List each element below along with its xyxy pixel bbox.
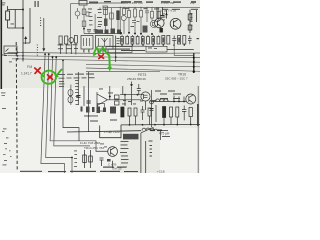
wire [166, 10, 168, 19]
capacitor C15 [150, 109, 154, 111]
text specks right cluster [163, 13, 166, 16]
resistor R13 [188, 14, 192, 20]
resistor R27 [59, 36, 62, 44]
coil L3 [156, 99, 169, 102]
node [178, 101, 180, 103]
label box [79, 1, 87, 6]
box component [115, 95, 120, 99]
resistor R14 [188, 25, 192, 30]
wire [108, 99, 142, 101]
wire [99, 7, 101, 10]
node [52, 56, 54, 58]
resistor R30 [121, 107, 124, 117]
arrow input [25, 38, 27, 45]
wire [22, 0, 24, 62]
wire [109, 86, 111, 100]
capacitor C3 [94, 30, 98, 35]
text specks right of U2 [117, 37, 120, 40]
wire [151, 7, 153, 21]
IC box U2 [96, 36, 114, 50]
text specks mid right y47-52 [148, 47, 152, 50]
node row [120, 32, 122, 34]
resistor R34 [163, 107, 166, 118]
text specks mid top cluster [98, 8, 102, 11]
knot cluster right of TR14 top [97, 84, 141, 111]
resistor R21 [152, 37, 155, 45]
annotation ellipse [41, 70, 57, 85]
text specks [108, 92, 113, 95]
component band y36-45 x120-190 [121, 35, 192, 46]
text specks [125, 7, 129, 10]
wire [117, 10, 119, 34]
bus wire L3 [12, 59, 200, 62]
resistor R10 [140, 11, 143, 18]
bus wire L6 [86, 70, 160, 72]
node [44, 53, 46, 55]
wire [8, 6, 24, 28]
resistor R31 [128, 108, 131, 116]
resistor R11 [151, 12, 154, 19]
resistor R12 [157, 12, 160, 19]
wire [122, 86, 124, 95]
dark blob [160, 28, 163, 33]
wire [115, 36, 117, 63]
wire [196, 10, 198, 22]
resistor R28 [65, 36, 68, 44]
resistor R35 [170, 107, 173, 117]
wire [158, 7, 160, 20]
illegible text specks [1, 1, 198, 172]
text specks x40 y18 [40, 18, 41, 19]
wire [189, 10, 191, 34]
resistor R37 [189, 108, 192, 117]
node [137, 94, 139, 96]
capacitor C14 [137, 84, 141, 94]
resistor R6b [86, 12, 89, 16]
lighter lower-right paper region [160, 128, 200, 173]
resistor R7 [123, 9, 126, 15]
wire [100, 124, 200, 137]
dark blob cluster [95, 30, 103, 34]
label box T2 [97, 45, 146, 47]
resistor R39 [89, 156, 93, 162]
capacitor C13 [132, 21, 136, 23]
node row [121, 44, 123, 46]
text specks right of TR14 circle col [121, 140, 129, 143]
resistor R17 [131, 37, 134, 45]
switch box S1 [4, 46, 17, 54]
capacitor C7 [141, 106, 145, 120]
text specks under U1 pins [83, 51, 84, 52]
capacitor C10 [76, 96, 80, 98]
wire [23, 8, 30, 43]
wire [70, 4, 72, 44]
resistor R9 [134, 9, 137, 17]
wire base rail [120, 94, 144, 96]
text specks near 84 [81, 107, 83, 112]
node [193, 57, 195, 59]
text specks top row dark [121, 1, 131, 3]
transistor FET3 [141, 92, 150, 101]
node [193, 61, 195, 63]
text specks [155, 91, 161, 92]
text specks top mid [89, 2, 98, 3]
wire funnel [97, 94, 108, 106]
resistor R19 [141, 37, 144, 45]
svg-text:25K49 35K46: 25K49 35K46 [127, 77, 146, 81]
wire [77, 72, 79, 105]
resistor R3 [82, 21, 86, 27]
resistor R2 [82, 9, 86, 15]
resistor R8 [128, 11, 131, 18]
node row [129, 124, 131, 126]
wire top rail [71, 2, 124, 5]
text specks mid y74 [58, 73, 65, 76]
bus wire L4 [86, 64, 200, 67]
resistor R20 [147, 37, 150, 45]
resistor R1 [6, 11, 10, 20]
wire [174, 96, 184, 102]
wire [94, 14, 96, 33]
wire stub right [174, 45, 194, 56]
wire [130, 116, 191, 125]
transistor TR10 [170, 18, 181, 29]
wire [140, 7, 142, 34]
svg-text:+C1B: +C1B [157, 170, 165, 173]
wire [65, 44, 67, 54]
annotation tick [42, 75, 45, 77]
lower component band x120-200 y106-122 [121, 86, 199, 173]
wire [156, 7, 158, 18]
wire [83, 86, 85, 106]
annotation red X in circle [48, 75, 53, 80]
svg-text:TR14 25C 783: TR14 25C 783 [84, 146, 104, 150]
wire [124, 95, 126, 106]
resistor R16 [126, 37, 129, 45]
node [124, 94, 126, 96]
wire with coil 475uH [67, 131, 141, 132]
text specks lower mid [104, 146, 107, 149]
wire [60, 44, 62, 54]
resistor R25 [178, 36, 181, 45]
lighter lower-left paper region [0, 88, 120, 173]
resistor R33 [148, 108, 151, 116]
resistor R5 dark [104, 19, 108, 27]
capacitor C8 [182, 106, 186, 121]
label box outline [98, 104, 105, 112]
TR16 block [150, 90, 196, 131]
text specks pins col right of staircase [74, 150, 77, 153]
TR14 block [83, 147, 118, 168]
wire [119, 7, 121, 35]
scattered scan text specks [2, 1, 199, 168]
wire bottom rail [84, 33, 122, 35]
transistor TR9 [155, 18, 165, 28]
annotation arrow to circle [57, 70, 62, 76]
svg-text:1 Cap +100: 1 Cap +100 [104, 130, 120, 134]
arrow mark [165, 13, 168, 16]
label box [123, 134, 139, 140]
transistor Q3 [69, 38, 74, 43]
text specks TR16 rows [160, 94, 167, 95]
wire [83, 5, 85, 34]
arrow down D1 [43, 18, 45, 48]
wire [90, 150, 92, 168]
capacitor C16 [161, 16, 165, 18]
node [193, 66, 195, 68]
resistor R32 [134, 108, 137, 116]
capacitor C5 [172, 36, 176, 45]
capacitor C11 [87, 101, 91, 103]
long mid horizontal [67, 124, 200, 173]
resistor R22 [157, 37, 160, 45]
node [183, 101, 185, 103]
annotation green circle [41, 70, 62, 85]
wire [131, 87, 133, 105]
wire vertical A [41, 54, 65, 173]
text specks near switch [37, 45, 38, 46]
wire vertical C [50, 57, 96, 150]
text specks left column [1, 92, 6, 95]
wire [167, 48, 194, 50]
pin stubs [84, 49, 108, 54]
text specks between bus left [9, 61, 12, 64]
resistor R18 [136, 37, 139, 45]
wire [110, 8, 112, 34]
text specks BEC column [149, 141, 153, 142]
text specks in label box [108, 49, 130, 50]
diode D2 [150, 100, 154, 104]
resistor R36 [176, 107, 179, 117]
node [55, 56, 57, 58]
label box T3 [146, 46, 167, 52]
right top transistors [155, 7, 197, 33]
wire [145, 141, 147, 173]
wire [96, 92, 98, 107]
capacitor C6 [188, 36, 192, 45]
wire stubs band top [122, 35, 158, 37]
wire [75, 43, 77, 54]
text specks y50 mid [121, 50, 145, 51]
coil core [70, 85, 72, 106]
capacitor C1 [104, 10, 108, 15]
wire [123, 7, 125, 34]
wire corner right [161, 131, 169, 141]
node [48, 53, 50, 55]
text specks right top rows [162, 9, 168, 10]
transistor Q2 [150, 20, 157, 27]
node [173, 101, 175, 103]
annotation red X left [35, 68, 41, 74]
wire [88, 72, 90, 132]
wire [63, 60, 79, 141]
fold dashed line [16, 42, 17, 170]
wire [70, 42, 72, 54]
node [62, 60, 64, 62]
transistor TR16 [186, 94, 196, 104]
dark blob [143, 26, 148, 33]
resistor R23 [162, 36, 165, 45]
transistor Q4 [121, 16, 126, 21]
top area components [71, 1, 201, 45]
svg-text:475 µH: 475 µH [159, 132, 170, 136]
wire [151, 90, 153, 127]
annotation green zigzag arrow [93, 48, 112, 72]
annotation red X mid [99, 55, 104, 59]
label box small [103, 6, 108, 9]
coil L2 [68, 90, 73, 103]
resistor R38 [83, 155, 87, 163]
IC box U1 [81, 36, 93, 50]
node [71, 157, 73, 159]
capacitor C4 [145, 7, 149, 22]
box component [115, 101, 120, 105]
mid dense cluster x120-160 top [100, 7, 160, 35]
node [88, 115, 90, 117]
wire [128, 7, 130, 33]
wire [162, 7, 164, 15]
resistor stripe fills [121, 38, 123, 43]
text specks row y140 mid [128, 135, 137, 136]
node [22, 27, 24, 29]
resistor R15 [121, 37, 124, 45]
capacitor C9 [100, 158, 104, 166]
node dashed crossing [16, 52, 18, 54]
wire vertical B [46, 54, 72, 173]
wire [134, 7, 136, 34]
right edge line [197, 86, 199, 173]
background paper [0, 0, 200, 173]
wire vertical D [54, 57, 90, 146]
resistor R24 [167, 36, 170, 45]
wire [112, 161, 114, 168]
transistor Q1 [75, 11, 80, 16]
text specks bottom band [20, 171, 42, 172]
node [83, 28, 85, 30]
wire [84, 150, 86, 168]
resistor R29 [74, 36, 77, 44]
text specks top-left [2, 2, 5, 5]
resistor R4 [110, 13, 114, 19]
transistor TR14 [108, 147, 118, 157]
wire [145, 101, 147, 110]
svg-text:F.HG 7G5 25M: F.HG 7G5 25M [80, 141, 101, 145]
text specks between clusters [88, 8, 92, 11]
svg-text:FM: FM [27, 65, 32, 69]
mid-left below bus [62, 60, 91, 142]
resistor R26 [183, 36, 186, 45]
text specks FET3 bottom [123, 99, 126, 102]
node [109, 96, 111, 98]
wire [140, 133, 142, 173]
left border line [0, 0, 2, 89]
bus wire L1 [8, 52, 201, 53]
arrow down [131, 82, 133, 85]
bus wire L5 [86, 68, 200, 71]
bus wire L2 [8, 56, 201, 58]
coil L4 [142, 128, 157, 131]
wire [8, 9, 24, 11]
wire [151, 101, 187, 103]
wire top rail right [103, 6, 200, 8]
wire base [96, 150, 108, 151]
node [115, 56, 117, 58]
wire [155, 105, 157, 122]
text specks under R27 cluster [58, 44, 64, 47]
wire right vertical [193, 53, 195, 73]
capacitor C2 [87, 30, 91, 35]
diagonal wire [141, 127, 154, 133]
wire [105, 7, 107, 34]
node [193, 70, 195, 72]
svg-text:1.141.7: 1.141.7 [21, 72, 32, 76]
svg-text:25C 905 – 25C 7: 25C 905 – 25C 7 [165, 77, 188, 81]
left-center components above bus [59, 36, 194, 63]
node [22, 9, 24, 11]
FET3 block [120, 82, 150, 111]
resistor R6 dark [116, 11, 119, 21]
